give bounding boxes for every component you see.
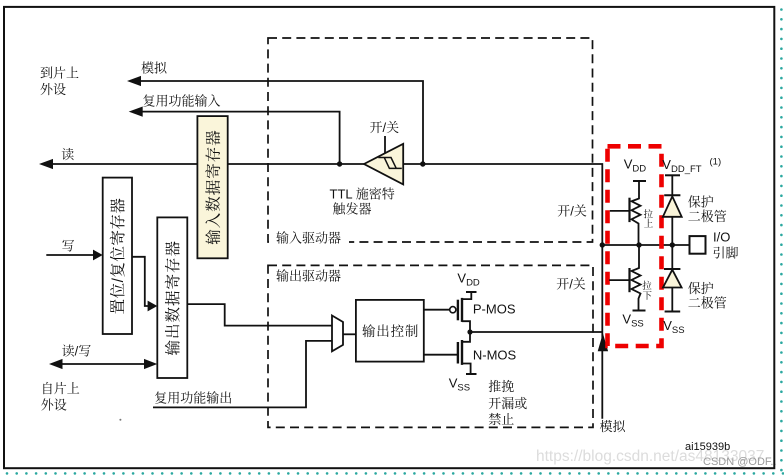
wire alternate function output: [153, 341, 332, 408]
VSS rail bar diodes: [665, 311, 681, 313]
I/O pin square: [690, 236, 706, 254]
svg-text:二极管: 二极管: [688, 296, 727, 311]
svg-text:开/关: 开/关: [557, 203, 587, 218]
junction dot output node: [467, 329, 472, 334]
svg-text:禁止: 禁止: [488, 412, 514, 427]
svg-text:保护: 保护: [688, 281, 714, 296]
output control box 输出控制: [356, 300, 424, 362]
svg-text:N-MOS: N-MOS: [473, 347, 517, 362]
svg-text:下: 下: [643, 291, 653, 302]
arrowhead up toward I/O pin: [598, 333, 608, 351]
svg-text:外设: 外设: [40, 82, 66, 97]
VSS rail bar N-MOS: [466, 373, 477, 375]
schmitt trigger U1 TTL: [364, 144, 403, 185]
watermark teal dotted border right: [780, 10, 783, 471]
wire output to I/O column: [470, 331, 602, 333]
red dashed highlight box: [608, 146, 662, 346]
svg-text:模拟: 模拟: [600, 419, 627, 434]
svg-text:VSS: VSS: [663, 318, 684, 336]
svg-text:复用功能输出: 复用功能输出: [154, 391, 232, 406]
wire schmitt input to I/O column and analog down: [403, 164, 602, 419]
protection diode top: [671, 175, 673, 195]
svg-text:P-MOS: P-MOS: [473, 302, 516, 317]
transistor N-MOS: [462, 332, 470, 342]
wire read/write double arrow: [60, 363, 146, 365]
wire set/reset reg to output data reg: [132, 257, 149, 306]
schmitt hysteresis symbol: [378, 158, 402, 169]
output driver dashed box 输出驱动器: [268, 265, 593, 427]
VDD_FT rail bar: [665, 174, 680, 176]
pull-up switch gate bar: [628, 198, 630, 222]
svg-text:输入驱动器: 输入驱动器: [276, 230, 341, 245]
wire output data reg to mux: [187, 304, 332, 326]
resistor pull-up: [632, 181, 641, 245]
svg-text:推挽: 推挽: [488, 379, 514, 394]
stray mark: [119, 419, 121, 421]
wire I/O node line: [602, 244, 689, 246]
svg-text:CSDN @ODF..: CSDN @ODF..: [703, 456, 777, 468]
svg-text:I/O: I/O: [713, 230, 730, 245]
svg-text:输出数据寄存器: 输出数据寄存器: [163, 240, 182, 356]
wire read line: [51, 163, 364, 165]
pull-down switch gate bar: [628, 268, 630, 292]
register bit set/reset 置位/复位寄存器: [103, 178, 132, 334]
wire pull-up switch control: [610, 210, 630, 212]
register output data 输出数据寄存器: [157, 217, 187, 378]
svg-text:TTL 施密特: TTL 施密特: [330, 186, 395, 201]
svg-text:(1): (1): [710, 156, 722, 167]
svg-text:复用功能输入: 复用功能输入: [143, 94, 221, 109]
protection diode bottom: [671, 245, 673, 269]
junction dot analog / schmitt input: [420, 161, 425, 166]
junction dot node/pull resistors: [636, 242, 641, 247]
wire mux to output control: [343, 333, 356, 335]
svg-text:输出驱动器: 输出驱动器: [276, 269, 341, 284]
svg-text:VDD: VDD: [457, 270, 480, 288]
svg-text:VDD: VDD: [624, 157, 647, 175]
wire alternate function input: [141, 112, 340, 162]
svg-text:输入数据寄存器: 输入数据寄存器: [203, 129, 222, 245]
svg-text:VDD_FT: VDD_FT: [662, 157, 701, 175]
svg-text:开/关: 开/关: [370, 120, 400, 135]
junction dot node/diodes: [670, 242, 675, 247]
wire gate P-MOS: [424, 309, 450, 311]
svg-text:模拟: 模拟: [141, 61, 168, 76]
svg-text:写: 写: [62, 239, 75, 254]
watermark teal dotted border bottom: [7, 472, 783, 475]
svg-text:VSS: VSS: [622, 312, 643, 330]
register input data 输入数据寄存器: [197, 116, 227, 258]
svg-text:触发器: 触发器: [333, 202, 372, 217]
wire analog input (top): [139, 81, 423, 162]
svg-text:读/写: 读/写: [62, 344, 92, 359]
resistor pull-down: [632, 245, 641, 311]
svg-text:输出控制: 输出控制: [362, 323, 419, 339]
wire pull-down switch control: [609, 279, 629, 281]
schmitt on/off switch stem: [384, 136, 386, 153]
VDD rail bar pull-up: [633, 180, 646, 182]
mux trapezoid: [332, 316, 343, 352]
wire gate N-MOS: [424, 354, 458, 356]
VDD rail bar P-MOS: [466, 291, 477, 293]
svg-text:VSS: VSS: [449, 376, 470, 394]
junction dot AF input / read line: [337, 161, 342, 166]
svg-text:引脚: 引脚: [713, 246, 739, 261]
svg-text:保护: 保护: [688, 195, 714, 210]
svg-text:ai15939b: ai15939b: [685, 441, 730, 453]
svg-text:开/关: 开/关: [556, 277, 586, 292]
junction dot node/analog: [600, 242, 605, 247]
svg-text:到片上: 到片上: [40, 66, 79, 81]
svg-text:读: 读: [61, 147, 74, 162]
wire write: [46, 254, 95, 256]
svg-text:自片上: 自片上: [41, 381, 80, 396]
svg-text:二极管: 二极管: [688, 209, 727, 224]
svg-text:上: 上: [644, 218, 654, 230]
input driver dashed box 输入驱动器: [268, 38, 593, 242]
svg-text:置位/复位寄存器: 置位/复位寄存器: [108, 198, 127, 315]
svg-text:开漏或: 开漏或: [488, 396, 527, 411]
transistor P-MOS: [462, 292, 471, 299]
VSS rail bar pull-down: [633, 310, 646, 312]
svg-text:外设: 外设: [41, 397, 67, 412]
